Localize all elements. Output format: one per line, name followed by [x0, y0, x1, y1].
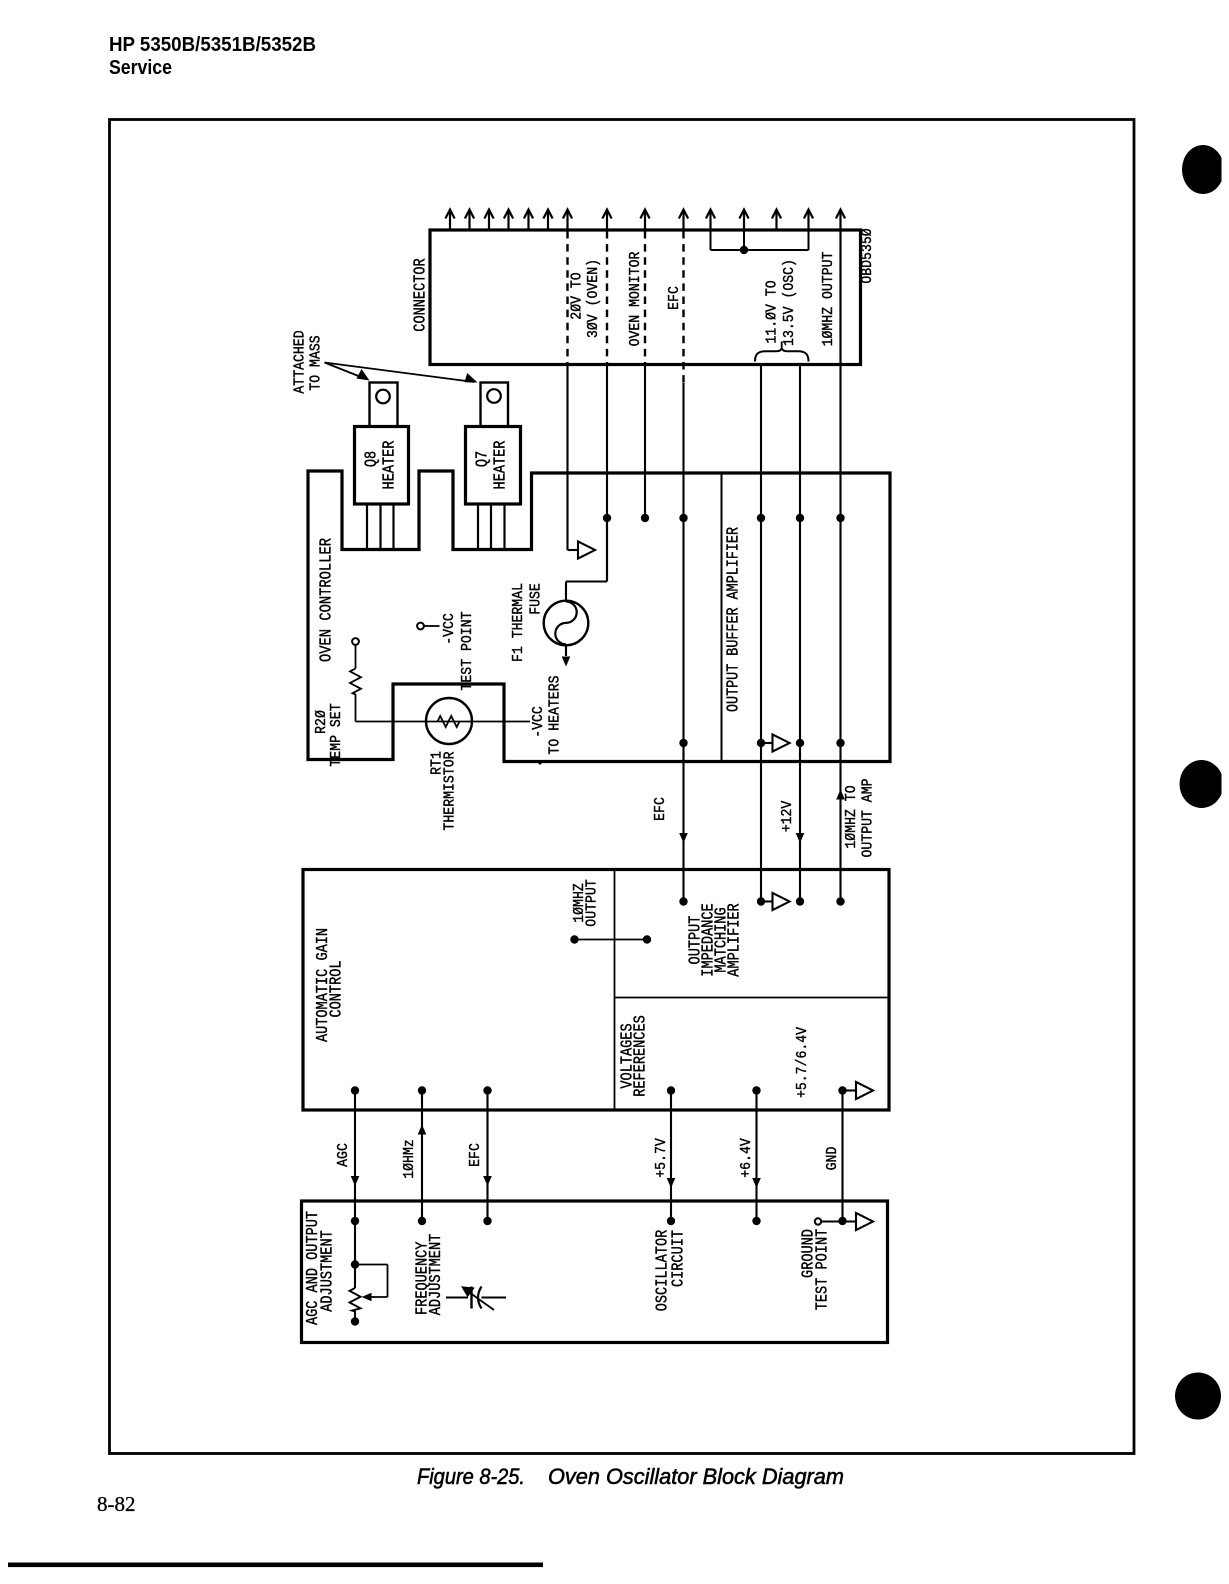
- connector J1 box: [430, 230, 861, 365]
- AGC wire down: [354, 1091, 356, 1222]
- svg-text:ADJUSTMENT: ADJUSTMENT: [426, 1234, 445, 1316]
- svg-text:HEATER: HEATER: [380, 440, 399, 489]
- R20 temp set potentiometer: [352, 638, 359, 645]
- wire osc supply A through buffer box: [760, 473, 762, 743]
- svg-text:HP 5350B/5351B/5352B: HP 5350B/5351B/5352B: [109, 33, 316, 56]
- wire osc supply A to buffer box: [760, 365, 762, 474]
- svg-text:ADJUSTMENT: ADJUSTMENT: [318, 1230, 337, 1312]
- svg-text:-VCC: -VCC: [531, 706, 547, 738]
- svg-text:OUTPUT AMP: OUTPUT AMP: [861, 779, 877, 858]
- connector pin arrow 3: [488, 211, 490, 232]
- junction dot x=842.5 oscillator box row: [838, 1217, 846, 1225]
- wire oven monitor to buffer box: [644, 365, 646, 474]
- svg-text:CONTROL: CONTROL: [327, 960, 346, 1017]
- junction dot x=487.5 AGC/voltage refs bottom row: [483, 1086, 491, 1094]
- svg-text:TEMP SET: TEMP SET: [329, 703, 345, 766]
- junction on bracket: [740, 246, 748, 254]
- svg-text:Service: Service: [109, 56, 172, 79]
- buffer symbol (oven supply): [578, 541, 595, 558]
- svg-text:HEATER: HEATER: [491, 440, 510, 489]
- junction dot x=607 buffer box top row: [603, 514, 611, 522]
- connector pin arrow 4: [507, 211, 509, 232]
- junction dot x=800 impedance amp row: [796, 897, 804, 905]
- svg-text:OVEN MONITOR: OVEN MONITOR: [628, 251, 644, 346]
- connector pin arrow 15: [839, 211, 841, 232]
- border frame: [110, 120, 1135, 1454]
- brace 11.0-13.5V: [755, 348, 809, 361]
- junction dot x=761 impedance amp row: [757, 897, 765, 905]
- connector pin arrow 11: [709, 211, 711, 232]
- junction dot x=683.5 buffer box top row: [679, 514, 687, 522]
- wire 30V jog to fuse: [606, 473, 608, 582]
- svg-text:AGC: AGC: [336, 1143, 352, 1167]
- RT1 zigzag: [438, 716, 460, 727]
- scan speck: [538, 761, 541, 764]
- svg-text:OUTPUT BUFFER AMPLIFIER: OUTPUT BUFFER AMPLIFIER: [724, 527, 743, 712]
- oscillator circuit box: [302, 1201, 888, 1343]
- buffer symbol (impedance amp): [773, 893, 790, 910]
- svg-text:11.ØV TO: 11.ØV TO: [765, 280, 781, 343]
- brace tick: [781, 342, 783, 349]
- svg-text:Figure 8-25.: Figure 8-25.: [417, 1464, 525, 1489]
- AGC / impedance / voltage refs box: [303, 870, 889, 1111]
- EFC wire down: [682, 743, 684, 902]
- junction dot x=800 buffer box bottom row: [796, 739, 804, 747]
- 10MHz to output amp wire: [839, 743, 841, 902]
- GND wire: [841, 1091, 843, 1222]
- connector pin arrow 1: [449, 211, 451, 232]
- connector pin arrow 9: [644, 211, 646, 232]
- -VCC test point: [417, 623, 424, 630]
- svg-text:OUTPUT: OUTPUT: [585, 879, 601, 927]
- heater Q8: [370, 383, 398, 427]
- wire oven monitor dashed: [644, 231, 646, 364]
- junction dot x=422 AGC/voltage refs bottom row: [418, 1086, 426, 1094]
- junction dot x=756.5 AGC/voltage refs bottom row: [752, 1086, 760, 1094]
- wire EFC through buffer box: [682, 518, 684, 762]
- svg-text:1ØMHZ OUTPUT: 1ØMHZ OUTPUT: [821, 251, 837, 346]
- wire EFC to buffer box: [682, 383, 684, 473]
- buffer symbol (ground test point): [856, 1213, 873, 1230]
- junction dot x=671 oscillator box row: [667, 1217, 675, 1225]
- AGC adjustment potentiometer: [354, 1221, 356, 1265]
- 10MHz output link wire: [575, 939, 648, 941]
- connector pin arrow 10: [682, 211, 684, 232]
- svg-text:Q7: Q7: [473, 451, 492, 467]
- wire 20V to buffer box: [566, 365, 568, 474]
- wire 10MHz output through connector: [839, 231, 841, 365]
- wire 30V dashed: [606, 231, 608, 364]
- svg-text:Q8: Q8: [362, 451, 381, 467]
- junction dot x=645 buffer box top row: [641, 514, 649, 522]
- svg-text:AMPLIFIER: AMPLIFIER: [725, 903, 744, 976]
- attached to mass arrows: [325, 363, 367, 380]
- wire 10MHz to buffer box: [839, 365, 841, 474]
- osc supply wire down: [760, 743, 762, 902]
- +6.4V wire: [755, 1091, 757, 1222]
- registration mark 2: [1180, 760, 1224, 808]
- svg-text:CONNECTOR: CONNECTOR: [411, 258, 430, 331]
- RT1 thermistor circle: [426, 698, 472, 744]
- svg-text:GND: GND: [825, 1146, 841, 1170]
- svg-text:13.5V (OSC): 13.5V (OSC): [782, 259, 798, 346]
- junction dot x=756.5 oscillator box row: [752, 1217, 760, 1225]
- frequency adjustment varicap: [446, 1297, 468, 1299]
- 10HMz wire up: [421, 1091, 423, 1222]
- +12V wire down: [799, 743, 801, 902]
- junction dot x=800 buffer box top row: [796, 514, 804, 522]
- wire 20V dashed: [566, 231, 568, 364]
- svg-text:1ØMHZ TO: 1ØMHZ TO: [844, 785, 860, 848]
- F1 thermal fuse: [544, 601, 589, 646]
- svg-text:1ØHMz: 1ØHMz: [402, 1139, 418, 1179]
- svg-text:TEST POINT: TEST POINT: [813, 1229, 832, 1311]
- wire osc supply B through buffer box: [799, 473, 801, 743]
- svg-text:Oven Oscillator Block Diagram: Oven Oscillator Block Diagram: [548, 1464, 844, 1489]
- impedance/voltages divider: [615, 997, 890, 999]
- connector pin arrow 2: [468, 211, 470, 232]
- wire 10MHz through buffer box: [839, 473, 841, 743]
- EFC wire down to osc: [486, 1091, 488, 1222]
- osc supply bracket: [710, 232, 712, 251]
- +5.7V wire: [670, 1091, 672, 1222]
- svg-text:EFC: EFC: [468, 1143, 484, 1167]
- bottom rule: [8, 1563, 543, 1568]
- junction dot x=840.5 buffer box top row: [836, 514, 844, 522]
- svg-text:CIRCUIT: CIRCUIT: [669, 1230, 688, 1287]
- junction dot x=842.5 AGC/voltage refs bottom row: [838, 1086, 846, 1094]
- svg-text:3ØV (OVEN): 3ØV (OVEN): [586, 259, 602, 338]
- to heaters arrow: [562, 657, 571, 667]
- svg-text:ATTACHED: ATTACHED: [293, 330, 309, 393]
- buffer box divider: [721, 473, 723, 762]
- svg-text:TEST POINT: TEST POINT: [460, 611, 476, 690]
- junction dot x=422 oscillator box row: [418, 1217, 426, 1225]
- ground test point: [815, 1218, 821, 1224]
- svg-text:+5.7V: +5.7V: [654, 1138, 670, 1178]
- junction dot x=761 buffer box bottom row: [757, 739, 765, 747]
- svg-text:-VCC: -VCC: [442, 613, 458, 645]
- svg-text:OBD535Ø: OBD535Ø: [860, 228, 876, 284]
- svg-text:+6.4V: +6.4V: [739, 1138, 755, 1178]
- wire osc supply B to buffer box: [799, 365, 801, 474]
- junction dot x=683.5 impedance amp row: [679, 897, 687, 905]
- svg-text:+5.7/6.4V: +5.7/6.4V: [795, 1027, 811, 1098]
- svg-text:OVEN CONTROLLER: OVEN CONTROLLER: [317, 538, 336, 662]
- RT1 thermistor wire: [356, 721, 531, 723]
- junction dot x=355 oscillator box row: [351, 1217, 359, 1225]
- fuse S-curve: [555, 602, 576, 645]
- wire 30V to fuse jog: [606, 518, 608, 582]
- connector pin arrow 8: [606, 211, 608, 232]
- registration mark 3: [1175, 1373, 1221, 1420]
- wire 30V to buffer box: [606, 365, 608, 474]
- svg-text:2ØV TO: 2ØV TO: [570, 272, 586, 320]
- svg-text:THERMISTOR: THERMISTOR: [442, 751, 458, 830]
- wire 20V to buffer tri: [566, 473, 568, 550]
- registration mark 1: [1182, 145, 1224, 194]
- wire EFC inside buffer box: [682, 473, 684, 518]
- svg-text:EFC: EFC: [667, 286, 683, 310]
- svg-text:F1 THERMAL: F1 THERMAL: [511, 583, 527, 662]
- oven controller / output buffer amplifier outline: [308, 471, 890, 762]
- connector pin arrow 5: [527, 211, 529, 232]
- wire oven monitor inside buffer box: [644, 473, 646, 518]
- junction dot x=761 buffer box top row: [757, 514, 765, 522]
- buffer symbol (gnd ref): [856, 1082, 873, 1099]
- connector pin arrow 14: [807, 211, 809, 232]
- svg-text:TO HEATERS: TO HEATERS: [548, 675, 564, 754]
- pot wiper arrow: [362, 1293, 372, 1302]
- junction dot x=671 AGC/voltage refs bottom row: [667, 1086, 675, 1094]
- svg-text:FUSE: FUSE: [529, 583, 545, 615]
- svg-text:REFERENCES: REFERENCES: [631, 1015, 650, 1097]
- junction dot x=840.5 impedance amp row: [836, 897, 844, 905]
- connector pin arrow 12: [743, 211, 745, 232]
- connector pin arrow 6: [547, 211, 549, 232]
- connector pin arrow 13: [775, 211, 777, 232]
- connector pin arrow 7: [566, 211, 568, 232]
- buffer symbol (osc supply): [773, 734, 790, 751]
- svg-text:TO MASS: TO MASS: [309, 335, 325, 391]
- heater Q7: [481, 383, 509, 427]
- junction dot x=355 AGC/voltage refs bottom row: [351, 1086, 359, 1094]
- svg-text:+12V: +12V: [780, 800, 796, 832]
- svg-text:EFC: EFC: [653, 797, 669, 821]
- wire EFC dashed: [682, 231, 684, 383]
- junction dot x=683.5 buffer box bottom row: [679, 739, 687, 747]
- junction dot x=840.5 buffer box bottom row: [836, 739, 844, 747]
- svg-text:R2Ø: R2Ø: [314, 710, 330, 734]
- junction dot x=487.5 oscillator box row: [483, 1217, 491, 1225]
- svg-text:8-82: 8-82: [97, 1492, 136, 1516]
- AGC divider: [614, 870, 616, 1111]
